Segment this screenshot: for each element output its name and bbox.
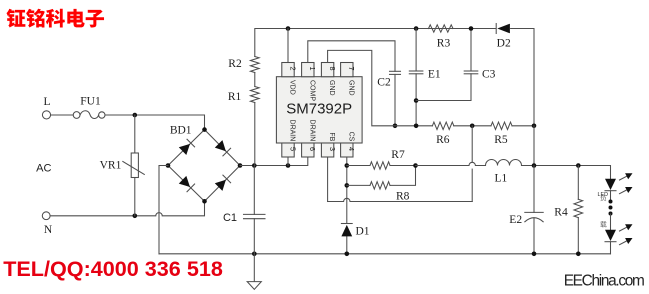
label R2: [228, 58, 242, 70]
wire fuse to bridge top corner: [105, 115, 205, 129]
wire L to fuse: [51, 114, 74, 116]
resistor R6: [432, 122, 453, 129]
svg-text:4: 4: [347, 147, 356, 151]
pin 5 DRAIN: [282, 120, 298, 157]
svg-text:TEL/QQ:4000 336 518: TEL/QQ:4000 336 518: [3, 256, 223, 281]
fuse FU1: [73, 111, 105, 119]
wire R6 to R5: [454, 125, 491, 127]
node D1 bottom junction: [345, 252, 350, 257]
label N: [44, 224, 53, 236]
resistor R2: [251, 57, 260, 73]
varistor VR1: [123, 115, 145, 216]
svg-text:R3: R3: [437, 37, 451, 49]
node E1 gnd rail junction: [414, 124, 419, 129]
svg-text:BD1: BD1: [170, 125, 192, 137]
label R6: [436, 134, 450, 146]
svg-text:R5: R5: [494, 134, 508, 146]
node C3 top rail junction: [469, 26, 474, 31]
label D1: [355, 225, 369, 237]
svg-text:2: 2: [288, 67, 297, 71]
node L terminal: [42, 111, 50, 119]
svg-text:3: 3: [328, 147, 337, 151]
label VR1: [100, 159, 122, 171]
svg-text:7: 7: [347, 67, 356, 71]
label AC: [36, 162, 51, 174]
svg-text:CS: CS: [347, 132, 354, 142]
node C1 / R1 junction: [252, 163, 257, 168]
wire N to bridge bottom (hop over left column): [50, 201, 204, 216]
node pin5 junction: [286, 163, 291, 168]
capacitor C3: [464, 29, 478, 74]
diode D1: [341, 224, 352, 237]
capacitor C1: [244, 166, 266, 254]
svg-text:8: 8: [328, 67, 337, 71]
label D2: [497, 37, 511, 49]
svg-text:R1: R1: [228, 91, 242, 103]
svg-text:6: 6: [308, 147, 317, 151]
wire top rail: [255, 29, 534, 126]
label L: [43, 96, 50, 108]
node R7 R8 junction: [413, 163, 418, 168]
wire pin5 drain down: [287, 157, 289, 166]
svg-text:DRAIN: DRAIN: [289, 120, 296, 142]
capacitor E1: [409, 29, 423, 126]
wire CS pin4 column: [346, 157, 348, 254]
svg-text:GND: GND: [328, 80, 335, 96]
wire R2 to R1: [254, 73, 256, 87]
svg-text:DRAIN: DRAIN: [308, 120, 315, 142]
wire bridge left vertex to ground column: [159, 166, 168, 254]
svg-text:E1: E1: [428, 69, 441, 81]
svg-text:R4: R4: [554, 207, 568, 219]
svg-text:C2: C2: [377, 77, 391, 89]
node CS R7 junction: [345, 163, 350, 168]
node E1 C3 bottom junction: [414, 98, 419, 103]
label L1: [495, 173, 508, 185]
wire bottom ground rail: [159, 253, 611, 255]
label C1: [223, 212, 237, 224]
svg-text:E2: E2: [509, 214, 522, 226]
svg-text:R8: R8: [396, 191, 410, 203]
wire VDD pin to rail: [287, 29, 289, 63]
wire R5 to D2 column: [512, 125, 534, 127]
diode D2: [496, 24, 510, 34]
svg-text:AC: AC: [36, 162, 51, 174]
wire R7 node to L1 (hops over FB column): [416, 162, 486, 165]
svg-text:5: 5: [288, 147, 297, 151]
svg-text:1: 1: [308, 67, 317, 71]
label C3: [482, 69, 496, 81]
pin 8 GND: [321, 63, 337, 96]
svg-text:FU1: FU1: [80, 96, 101, 108]
resistor R3: [429, 25, 454, 32]
label C2: [377, 77, 391, 89]
wire D2 column down to output: [533, 126, 535, 166]
svg-text:R7: R7: [391, 149, 405, 161]
svg-text:COMP: COMP: [308, 80, 315, 101]
node N terminal: [42, 212, 50, 220]
node VDD rail junction: [286, 26, 291, 31]
svg-text:SM7392P: SM7392P: [286, 101, 352, 118]
node R4 top junction: [576, 163, 581, 168]
pin 6 DRAIN: [302, 120, 318, 157]
pin 2 VDD: [282, 63, 298, 95]
resistor R8: [347, 166, 416, 190]
svg-text:FB: FB: [328, 132, 335, 141]
node FB divider junction: [470, 124, 475, 129]
node E1 top rail junction: [414, 26, 419, 31]
svg-text:L1: L1: [495, 173, 508, 185]
pin 1 COMP: [302, 63, 318, 102]
svg-text:D2: D2: [497, 37, 511, 49]
wire COMP pin1 to C2: [308, 41, 395, 72]
node output junction: [532, 163, 537, 168]
svg-text:L: L: [43, 96, 50, 108]
wire L1 to LED column: [522, 166, 611, 179]
svg-text:N: N: [44, 224, 53, 236]
svg-text:EEChina.com: EEChina.com: [564, 272, 644, 289]
svg-text:R6: R6: [436, 134, 450, 146]
node E2 bottom junction: [532, 252, 537, 257]
label R3: [437, 37, 451, 49]
node CS R8 junction: [345, 183, 350, 188]
label R5: [494, 134, 508, 146]
resistor R7: [347, 162, 416, 169]
svg-text:C1: C1: [223, 212, 237, 224]
capacitor E2: [525, 166, 543, 254]
wire R1 to DC bus: [254, 103, 256, 166]
wire FB pin3 to divider (hops over CS column): [328, 126, 473, 202]
op-amp U1 SM7392P body: [276, 77, 362, 143]
node D2 column R5 junction: [532, 124, 537, 129]
svg-text:VDD: VDD: [289, 80, 296, 95]
wire E1 to C3 bottom: [416, 74, 471, 101]
label R1: [228, 91, 242, 103]
bridge rectifier BD1: [166, 127, 243, 203]
company name 钲铭科电子: [6, 9, 104, 28]
label R8: [396, 191, 410, 203]
label LED load: [598, 192, 609, 228]
wire GND pin8 to gnd rail: [328, 50, 433, 125]
svg-text:D1: D1: [355, 225, 369, 237]
svg-text:C3: C3: [482, 69, 496, 81]
ground: [247, 254, 261, 290]
svg-text:VR1: VR1: [100, 159, 122, 171]
svg-text:GND: GND: [347, 80, 354, 96]
wire C2 bottom to gnd rail: [394, 74, 396, 125]
node junction VR1 top: [133, 113, 138, 118]
node junction VR1 bottom: [133, 214, 138, 219]
node R4 bottom junction: [576, 252, 581, 257]
pin 4 CS: [341, 132, 357, 157]
pin 7 GND: [341, 63, 357, 96]
label R4: [554, 207, 568, 219]
label FU1: [80, 96, 101, 108]
node C2 gnd junction: [393, 124, 398, 129]
label BD1: [170, 125, 192, 137]
capacitor C2: [390, 71, 401, 74]
resistor R1: [251, 87, 260, 103]
resistor R5: [491, 122, 512, 129]
LED light arrows: [620, 173, 633, 244]
svg-text:R2: R2: [228, 58, 242, 70]
LED string D3: [605, 179, 616, 254]
node C1 bottom junction: [252, 252, 257, 257]
label E2: [509, 214, 522, 226]
inductor L1: [486, 160, 522, 166]
pin 3 FB: [321, 132, 337, 157]
resistor R4: [574, 166, 583, 254]
label E1: [428, 69, 441, 81]
wire bridge right vertex to DC bus: [240, 157, 308, 166]
label R7: [391, 149, 405, 161]
